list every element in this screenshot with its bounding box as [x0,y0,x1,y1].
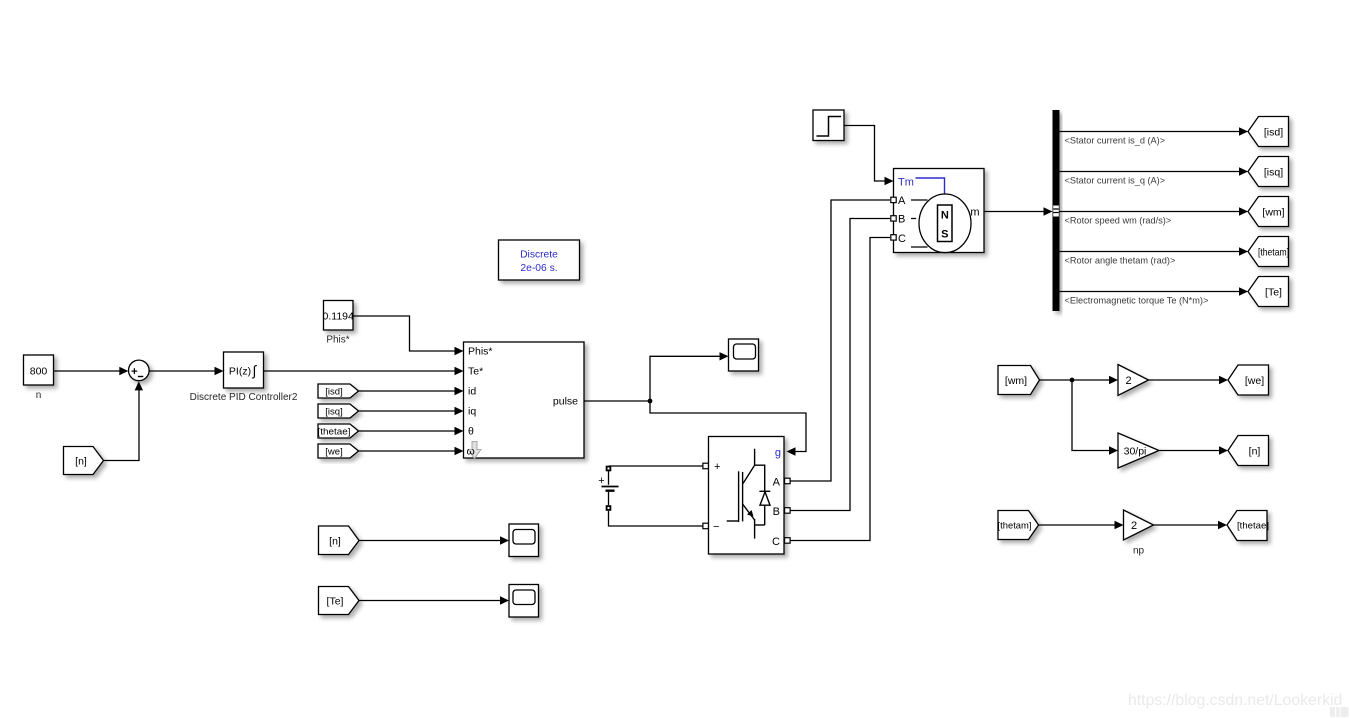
svg-text:N: N [941,210,949,222]
svg-text:Te*: Te* [468,366,483,378]
svg-text:C: C [898,233,906,245]
svg-text:<Rotor angle thetam (rad)>: <Rotor angle thetam (rad)> [1065,256,1176,266]
svg-text:[Te]: [Te] [327,596,344,608]
svg-text:Discrete: Discrete [520,250,558,261]
svg-text:https://blog.csdn.net/Lookerki: https://blog.csdn.net/Lookerkid [1128,692,1342,709]
svg-text:g: g [775,447,781,459]
svg-text:Tm: Tm [898,177,914,189]
svg-text:Discrete PID Controller2: Discrete PID Controller2 [190,392,298,403]
svg-text:[isq]: [isq] [1264,167,1283,179]
svg-text:800: 800 [30,366,48,378]
svg-text:[wm]: [wm] [1005,375,1027,387]
svg-text:+: + [598,475,604,487]
svg-text:iq: iq [468,406,476,418]
svg-text:θ: θ [468,426,474,438]
svg-text:<Stator current is_q (A)>: <Stator current is_q (A)> [1065,176,1166,186]
svg-text:C: C [772,536,780,548]
svg-text:B: B [898,214,905,226]
svg-text:2: 2 [1131,520,1137,532]
svg-text:[isq]: [isq] [325,407,342,418]
svg-text:S: S [941,229,948,241]
svg-text:[thetam]: [thetam] [998,521,1032,532]
svg-text:2e-06 s.: 2e-06 s. [520,263,557,274]
svg-text:id: id [468,386,476,398]
svg-text:Phis*: Phis* [326,335,349,346]
svg-text:[thetae]: [thetae] [318,427,351,438]
svg-text:B: B [773,506,780,518]
svg-text:+: + [714,461,720,473]
svg-text:[Te]: [Te] [1265,287,1282,299]
svg-text:PI(z): PI(z) [229,366,251,378]
svg-text:[wm]: [wm] [1262,207,1284,219]
svg-text:<Stator current is_d (A)>: <Stator current is_d (A)> [1065,136,1166,146]
svg-text:m: m [970,207,979,219]
svg-text:[n]: [n] [1249,446,1261,458]
svg-text:[n]: [n] [75,456,87,468]
svg-text:ω: ω [467,446,475,458]
svg-text:[isd]: [isd] [1264,127,1283,139]
svg-text:Phis*: Phis* [468,346,493,358]
svg-text:0.1194: 0.1194 [323,311,354,323]
svg-text:[we]: [we] [325,447,342,458]
svg-text:<Rotor speed wm (rad/s)>: <Rotor speed wm (rad/s)> [1065,216,1172,226]
svg-text:−: − [713,521,719,533]
svg-text:n: n [36,390,42,401]
svg-text:pulse: pulse [553,396,578,408]
svg-text:30/pi: 30/pi [1124,446,1147,458]
svg-text:A: A [773,477,781,489]
svg-text:[isd]: [isd] [325,387,342,398]
svg-text:np: np [1133,546,1145,557]
svg-text:[n]: [n] [329,536,341,548]
svg-text:<Electromagnetic torque Te (N*: <Electromagnetic torque Te (N*m)> [1065,296,1209,306]
svg-text:A: A [898,195,906,207]
svg-text:[thetae]: [thetae] [1237,521,1269,532]
svg-text:2: 2 [1125,375,1131,387]
svg-text:[thetam]: [thetam] [1258,247,1289,259]
svg-text:[we]: [we] [1245,375,1264,387]
